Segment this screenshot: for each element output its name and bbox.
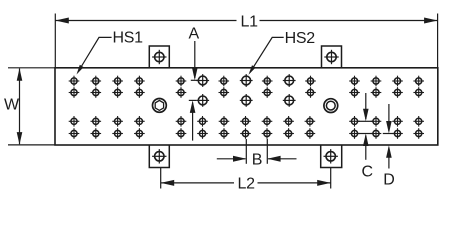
center bushing left: [153, 99, 167, 113]
svg-text:W: W: [4, 97, 20, 114]
dimension L1 extension lines: [55, 14, 437, 68]
tab hole top-left: [152, 50, 166, 64]
dimension A upper arrow: [191, 41, 199, 80]
dimension B arrows: [217, 156, 297, 162]
hole group bottom-left: [69, 116, 145, 139]
dimension C lower arrow: [358, 134, 373, 160]
center bushing right: [324, 99, 338, 113]
svg-text:HS1: HS1: [113, 30, 144, 47]
leader HS2: [249, 37, 284, 74]
dimension L2 extension lines: [161, 168, 331, 189]
tab hole bottom-left: [152, 149, 166, 163]
dimension B extension lines: [246, 139, 267, 164]
svg-text:L2: L2: [238, 176, 256, 193]
dimension W line and arrows: [17, 68, 23, 144]
mounting tab top-right: [322, 46, 342, 68]
dimension W extension lines: [8, 68, 55, 145]
svg-text:C: C: [362, 164, 373, 181]
dimension L2 line: [161, 180, 331, 186]
svg-text:HS2: HS2: [285, 30, 316, 47]
mounting tab top-left: [149, 46, 169, 68]
dimension D upper arrow: [383, 104, 395, 134]
hole group top-middle small holes: [176, 76, 316, 98]
svg-text:B: B: [252, 152, 262, 169]
hole group bottom-right: [349, 116, 424, 139]
plate outline: [55, 68, 438, 145]
leader HS1: [77, 37, 112, 74]
svg-text:L1: L1: [241, 13, 259, 30]
dimension C upper arrow: [358, 93, 373, 121]
dimension D lower arrow: [386, 145, 392, 168]
hole group top-left: [69, 76, 145, 98]
svg-text:A: A: [189, 25, 200, 42]
tab hole bottom-right: [324, 149, 338, 163]
tab hole top-right: [324, 50, 338, 64]
dimension A lower arrow: [189, 100, 197, 140]
dimension L1 line: [55, 18, 437, 24]
hole group bottom-middle: [176, 116, 316, 139]
mounting tab bottom-right: [321, 145, 342, 168]
semiconductor mounting holes (large, A-spaced pairs): [196, 74, 295, 107]
hole group top-right: [349, 76, 424, 98]
mounting tab bottom-left: [149, 145, 169, 168]
svg-text:D: D: [383, 172, 394, 189]
